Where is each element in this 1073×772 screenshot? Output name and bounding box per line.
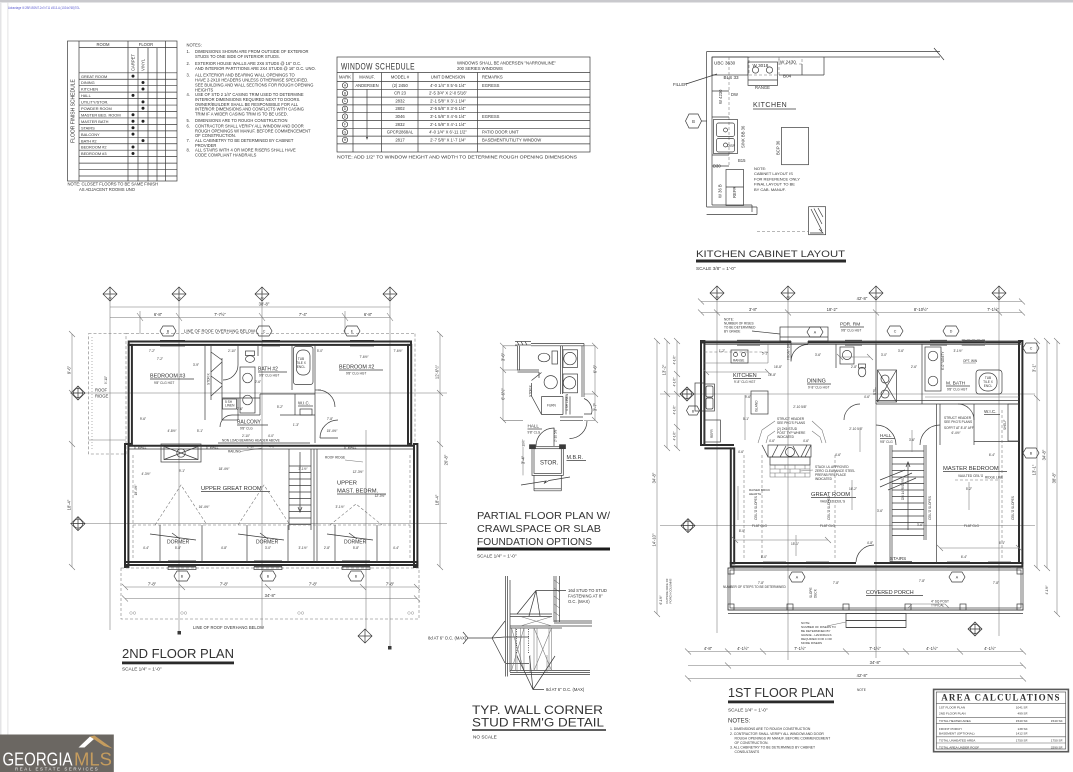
- grid diamonds top: [103, 287, 397, 301]
- svg-text:COVERED PORCH: COVERED PORCH: [866, 590, 914, 596]
- bath2 vanity sinks: [240, 367, 255, 413]
- svg-text:138 SF.: 138 SF.: [1018, 727, 1029, 731]
- svg-text:B15: B15: [738, 158, 746, 163]
- GeorgiaMLS logo: [0, 735, 114, 772]
- svg-text:9'8" CLG HGT: 9'8" CLG HGT: [841, 329, 861, 333]
- left grid diamond 2/A3: [680, 387, 694, 401]
- svg-text:Advantage III 2BR-BSMT-2x7x711: Advantage III 2BR-BSMT-2x7x711 #313-A (1…: [8, 6, 80, 10]
- upper cabinets: [712, 57, 748, 75]
- svg-text:A3: A3: [997, 295, 1001, 299]
- svg-text:BASEMENT/UTILITY WINDOW: BASEMENT/UTILITY WINDOW: [482, 137, 541, 142]
- svg-text:BASEMENT (OPTIONAL): BASEMENT (OPTIONAL): [939, 732, 975, 736]
- svg-text:GPCR2868AL: GPCR2868AL: [387, 130, 414, 135]
- svg-text:MODEL #: MODEL #: [391, 75, 410, 80]
- top plate lines: [510, 613, 552, 615]
- dormer walls: [160, 525, 377, 562]
- svg-text:SCALE 1/4" = 1'-0": SCALE 1/4" = 1'-0": [122, 667, 162, 672]
- interior dim texts scattered: [141, 355, 368, 476]
- svg-text:7'-8": 7'-8": [148, 582, 157, 587]
- svg-text:4'-3½": 4'-3½": [141, 472, 150, 476]
- door arcs: [844, 404, 860, 420]
- svg-text:DINING: DINING: [807, 379, 826, 385]
- right dims: [437, 331, 443, 570]
- svg-text:7'-8": 7'-8": [993, 581, 999, 585]
- svg-text:4'-8": 4'-8": [221, 546, 227, 550]
- struct header right: [944, 416, 974, 430]
- svg-text:9'-6": 9'-6": [745, 395, 751, 399]
- svg-text:9'8" CLG HGT: 9'8" CLG HGT: [259, 374, 279, 378]
- svg-text:UPPER GREAT ROOM: UPPER GREAT ROOM: [201, 486, 262, 492]
- hall doors: [536, 428, 554, 446]
- great room / master partition: [313, 449, 315, 562]
- svg-text:CEIL'G SLOPES: CEIL'G SLOPES: [754, 496, 758, 520]
- svg-text:AND INTERIOR PARTITIONS ARE 2X: AND INTERIOR PARTITIONS ARE 2X4 STUDS @ …: [195, 66, 316, 71]
- svg-text:7'-1½": 7'-1½": [987, 307, 999, 312]
- svg-text:3'-6": 3'-6": [898, 349, 904, 353]
- svg-text:7'-6½": 7'-6½": [393, 349, 402, 353]
- svg-text:ENCL: ENCL: [984, 384, 993, 388]
- svg-text:STAIRS: STAIRS: [890, 556, 906, 561]
- svg-text:B04: B04: [783, 74, 792, 79]
- svg-text:2'-10": 2'-10": [247, 445, 255, 449]
- svg-text:RANGE: RANGE: [755, 85, 770, 90]
- roof gold part: [90, 736, 113, 749]
- hexagon B left: [687, 406, 700, 415]
- svg-text:3'-6": 3'-6": [501, 352, 506, 361]
- stairs shaft: [289, 449, 311, 530]
- svg-text:A3: A3: [715, 295, 719, 299]
- porch door opening: [856, 562, 874, 565]
- ceiling slope dashed lines: [744, 410, 1002, 560]
- svg-text:STOR.: STOR.: [540, 461, 559, 467]
- svg-text:DIMENSIONS ARE TO ROUGH CONSTR: DIMENSIONS ARE TO ROUGH CONSTRUCTION: [195, 118, 287, 123]
- svg-text:RANGE: RANGE: [733, 359, 744, 363]
- svg-text:2'-5 5/8" X 3'-5 1/4": 2'-5 5/8" X 3'-5 1/4": [430, 106, 466, 111]
- svg-text:W.I.C.: W.I.C.: [984, 409, 997, 414]
- svg-text:6'-4": 6'-4": [989, 453, 995, 457]
- svg-text:1412 SF.: 1412 SF.: [1016, 732, 1028, 736]
- mark circles A-H: [342, 83, 347, 143]
- porch posts: [728, 568, 1023, 610]
- svg-text:15'-1": 15'-1": [791, 542, 799, 546]
- svg-text:5'-0": 5'-0": [317, 349, 323, 353]
- svg-text:7'-8": 7'-8": [327, 417, 333, 421]
- svg-text:2802: 2802: [395, 106, 405, 111]
- svg-text:FRONT PORCH: FRONT PORCH: [939, 727, 962, 731]
- svg-text:D: D: [950, 330, 953, 334]
- svg-text:HALL: HALL: [880, 433, 892, 438]
- svg-text:3'-1½": 3'-1½": [298, 546, 307, 550]
- svg-text:9'8" CLG HGT: 9'8" CLG HGT: [154, 381, 174, 385]
- general notes list: [187, 43, 316, 158]
- svg-text:4'-1½": 4'-1½": [737, 646, 749, 651]
- m bath vanity: [925, 347, 941, 391]
- svg-text:6'-8": 6'-8": [364, 312, 373, 317]
- window schedule table: [337, 57, 590, 161]
- svg-text:MANUF.: MANUF.: [359, 75, 375, 80]
- wall to right: [554, 620, 592, 622]
- svg-text:ROOF: ROOF: [95, 388, 108, 393]
- svg-text:INDICATED: INDICATED: [815, 477, 833, 481]
- svg-text:VAULTED CEIL'G: VAULTED CEIL'G: [820, 500, 846, 504]
- svg-text:C: C: [263, 329, 266, 333]
- svg-text:C: C: [1030, 347, 1033, 351]
- right hexagons: [1023, 343, 1039, 353]
- svg-text:W 3018: W 3018: [753, 63, 769, 68]
- svg-text:F: F: [344, 123, 346, 127]
- bottom diamond 4/A3: [968, 622, 982, 636]
- svg-text:W.I.C.: W.I.C.: [298, 401, 310, 406]
- svg-text:7'-8": 7'-8": [386, 582, 395, 587]
- area calculations table: [934, 689, 1069, 751]
- svg-text:3'-1 5/8" X 4'-5 1/4": 3'-1 5/8" X 4'-5 1/4": [430, 114, 466, 119]
- svg-text:5'-1": 5'-1": [743, 417, 749, 421]
- left bump out sink: [695, 383, 714, 411]
- svg-text:2'-6": 2'-6": [255, 380, 261, 384]
- svg-text:VAULTED CEIL'G: VAULTED CEIL'G: [958, 474, 984, 478]
- svg-text:1.: 1.: [187, 49, 190, 54]
- svg-text:4'-0": 4'-0": [269, 445, 275, 449]
- svg-text:42'-8": 42'-8": [857, 673, 868, 678]
- svg-text:3'-7": 3'-7": [593, 402, 598, 411]
- svg-text:SCALE 1/4" = 1'-0": SCALE 1/4" = 1'-0": [477, 554, 517, 559]
- svg-text:ROUGH OPENINGS W/ MANUF. BEFOR: ROUGH OPENINGS W/ MANUF. BEFORE COMMENCE…: [735, 737, 831, 741]
- svg-text:DECK: DECK: [814, 588, 818, 598]
- svg-text:2'-10": 2'-10": [242, 434, 250, 438]
- hexagons below bottom wall: [174, 571, 364, 581]
- svg-text:NOTE: NOTE: [857, 688, 866, 692]
- left roof wing dashed: [89, 334, 127, 454]
- svg-text:6" WALL: 6" WALL: [344, 445, 357, 449]
- svg-text:7'-7½": 7'-7½": [214, 312, 226, 317]
- balcony opening box: [161, 444, 201, 462]
- svg-text:2.: 2.: [187, 61, 190, 66]
- svg-text:7'-2": 7'-2": [157, 357, 163, 361]
- svg-text:34'-8": 34'-8": [652, 472, 657, 483]
- svg-text:5'-1": 5'-1": [197, 429, 203, 433]
- svg-text:7'-8": 7'-8": [220, 582, 229, 587]
- svg-text:14'-10": 14'-10": [652, 533, 657, 547]
- svg-text:FASTENING AT 8": FASTENING AT 8": [568, 594, 603, 599]
- svg-text:5'-2": 5'-2": [277, 405, 283, 409]
- svg-text:4'-0 1/4" X 6'-11 1/2": 4'-0 1/4" X 6'-11 1/2": [429, 130, 467, 135]
- svg-text:2'-8": 2'-8": [851, 365, 857, 369]
- svg-text:18'-2": 18'-2": [827, 307, 838, 312]
- steps note: [801, 621, 837, 645]
- left dim column: [654, 338, 680, 617]
- svg-text:UTILITY/STOR.: UTILITY/STOR.: [81, 100, 108, 105]
- svg-text:38'-8": 38'-8": [1052, 472, 1057, 483]
- svg-text:3'-1½": 3'-1½": [953, 349, 962, 353]
- svg-text:OPT. WIN: OPT. WIN: [963, 359, 978, 363]
- svg-text:CARPET: CARPET: [131, 54, 136, 71]
- utility closet X doors: [878, 370, 897, 402]
- svg-text:PATIO DOOR UNIT: PATIO DOOR UNIT: [482, 130, 519, 135]
- svg-text:4'-6": 4'-6": [835, 453, 841, 457]
- svg-text:38'-8": 38'-8": [259, 302, 270, 307]
- hexagon A at stoop: [807, 327, 823, 337]
- svg-text:UPPER: UPPER: [337, 481, 357, 487]
- svg-text:18'-4": 18'-4": [67, 499, 72, 510]
- svg-text:KITCHEN CABINET LAYOUT: KITCHEN CABINET LAYOUT: [696, 249, 845, 260]
- svg-text:INDICATED: INDICATED: [777, 435, 795, 439]
- kitchen cabinet layout: [673, 48, 944, 271]
- svg-text:TOTAL UNHEATED AREA: TOTAL UNHEATED AREA: [939, 738, 976, 742]
- roof overhang dashed top: [126, 333, 415, 335]
- grid diamonds top: [710, 286, 1006, 300]
- kitchen walls: [707, 48, 944, 207]
- svg-text:BATH #2: BATH #2: [81, 138, 97, 143]
- svg-text:26'-8": 26'-8": [444, 454, 449, 465]
- porch hexagons: [789, 572, 805, 582]
- partial plan dims: [500, 343, 598, 476]
- front stoop: [780, 327, 828, 341]
- svg-text:2'-1 5/8" X 4'-1 1/4": 2'-1 5/8" X 4'-1 1/4": [430, 122, 466, 127]
- opt win dashed: [962, 340, 985, 346]
- svg-text:3'-1": 3'-1": [1032, 363, 1037, 372]
- svg-text:HEARTH: HEARTH: [749, 492, 761, 496]
- typ wall corner stud framing detail: [428, 576, 607, 740]
- svg-text:WINDOW SCHEDULE: WINDOW SCHEDULE: [341, 62, 415, 73]
- svg-text:8'-0": 8'-0": [739, 529, 745, 533]
- svg-text:SLOPE: SLOPE: [809, 587, 813, 598]
- grid diamond left 5/A3: [71, 386, 85, 400]
- fireplace: [762, 445, 811, 465]
- covered porch: [728, 568, 1023, 614]
- svg-text:HALL: HALL: [81, 93, 92, 98]
- door arc bath right: [584, 399, 592, 415]
- svg-text:MAST. BEDRM.: MAST. BEDRM.: [337, 489, 379, 495]
- svg-text:9'8" CLG HGT: 9'8" CLG HGT: [346, 372, 366, 376]
- svg-text:BEDROOM #3: BEDROOM #3: [150, 374, 185, 380]
- svg-text:5'-8": 5'-8": [175, 546, 181, 550]
- svg-text:NOTES:: NOTES:: [728, 719, 751, 725]
- svg-text:9'8" CLG HGT: 9'8" CLG HGT: [947, 388, 967, 392]
- left grid diamond 7/A3: [681, 519, 695, 533]
- svg-text:MASTER BED. ROOM: MASTER BED. ROOM: [81, 113, 121, 118]
- svg-text:TOTAL HEATED AREA: TOTAL HEATED AREA: [939, 719, 972, 723]
- svg-text:10½": 10½": [522, 439, 526, 446]
- svg-text:NO SCALE: NO SCALE: [473, 735, 497, 740]
- svg-text:4'-1½": 4'-1½": [1045, 585, 1049, 594]
- svg-text:UNIT DIMENSION: UNIT DIMENSION: [431, 75, 466, 80]
- svg-text:2ND FLOOR PLAN: 2ND FLOOR PLAN: [122, 646, 234, 661]
- svg-text:16'-2": 16'-2": [849, 487, 857, 491]
- svg-text:3'-6": 3'-6": [877, 509, 883, 513]
- svg-text:FLOOR FINISH SCHEDULE: FLOOR FINISH SCHEDULE: [71, 79, 77, 143]
- svg-text:7'-6½": 7'-6½": [359, 355, 368, 359]
- partial plan walls: [518, 344, 585, 421]
- svg-text:18'-4½": 18'-4½": [219, 467, 230, 471]
- bottom wall corner: [707, 205, 757, 215]
- svg-text:7'-4": 7'-4": [299, 312, 308, 317]
- svg-text:SEE PKG'S PLANS: SEE PKG'S PLANS: [944, 420, 972, 424]
- svg-text:12'-3½": 12'-3½": [353, 470, 364, 474]
- svg-text:UTIL.: UTIL.: [873, 387, 877, 395]
- svg-text:3290 SF.: 3290 SF.: [1051, 745, 1063, 749]
- svg-text:A3: A3: [260, 296, 264, 300]
- upper section exterior walls: [129, 342, 412, 444]
- svg-text:CEIL'G SLOPES: CEIL'G SLOPES: [1011, 496, 1015, 520]
- top dim rows: [698, 299, 1025, 316]
- kitchen counters dashed: [704, 351, 768, 353]
- svg-text:6'-1½": 6'-1½": [659, 595, 663, 604]
- svg-text:9'8" CLG: 9'8" CLG: [240, 427, 253, 431]
- svg-text:REMARKS: REMARKS: [482, 75, 503, 80]
- svg-text:GREAT ROOM: GREAT ROOM: [81, 74, 107, 79]
- svg-text:2'-5 3/4" X 2'-0 5/16": 2'-5 3/4" X 2'-0 5/16": [429, 91, 468, 96]
- island BCP 36: [782, 127, 809, 164]
- svg-text:3'-1½": 3'-1½": [298, 467, 307, 471]
- svg-text:STOR K: STOR K: [529, 384, 533, 397]
- windows top wall: [737, 340, 985, 345]
- svg-text:B: B: [692, 119, 695, 124]
- svg-text:NOTE: CLOSET FLOORS TO BE SAME: NOTE: CLOSET FLOORS TO BE SAME FINISH: [68, 182, 159, 187]
- svg-text:6'-4½": 6'-4½": [951, 431, 960, 435]
- toilet: [538, 353, 550, 362]
- refr: [704, 420, 720, 442]
- svg-text:PORCH COLUMNS: PORCH COLUMNS: [669, 578, 673, 603]
- svg-text:4'-1½": 4'-1½": [673, 405, 677, 414]
- svg-text:15'-4½": 15'-4½": [327, 429, 338, 433]
- svg-text:6'-8": 6'-8": [154, 312, 163, 317]
- svg-text:BALCONY: BALCONY: [81, 132, 100, 137]
- bottom dim rows: [122, 584, 420, 602]
- svg-text:ANDERSEN: ANDERSEN: [355, 83, 378, 88]
- bath2 toilet: [246, 356, 255, 363]
- svg-text:REFR: REFR: [710, 429, 714, 438]
- windows top wall: [160, 340, 374, 346]
- svg-text:7'-1½": 7'-1½": [794, 646, 806, 651]
- svg-text:LINEN: LINEN: [225, 404, 235, 408]
- svg-text:5'-8": 5'-8": [353, 546, 359, 550]
- svg-text:STUDS TO ONE SIDE OF INTERIOR: STUDS TO ONE SIDE OF INTERIOR STUDS.: [195, 54, 280, 59]
- svg-text:4'-1½": 4'-1½": [926, 646, 938, 651]
- svg-text:KITCHEN: KITCHEN: [81, 87, 98, 92]
- svg-text:200 SERIES WINDOWS: 200 SERIES WINDOWS: [457, 66, 503, 71]
- svg-text:4'-8½": 4'-8½": [167, 429, 176, 433]
- svg-text:DORMER: DORMER: [167, 540, 190, 546]
- svg-text:18'-4½": 18'-4½": [134, 485, 138, 496]
- svg-text:6'-0" VANITY: 6'-0" VANITY: [941, 351, 945, 370]
- svg-text:CONSULTANTS: CONSULTANTS: [735, 750, 760, 754]
- svg-text:HALL: HALL: [528, 424, 540, 429]
- svg-text:BEDROOM #2: BEDROOM #2: [81, 145, 107, 150]
- dim row above bottom wall: [143, 546, 399, 550]
- range: [748, 62, 778, 85]
- svg-text:STAIRS: STAIRS: [81, 125, 95, 130]
- svg-text:4'-1½": 4'-1½": [673, 355, 677, 364]
- svg-text:1'-3": 1'-3": [293, 423, 299, 427]
- svg-text:OF CONSTRUCTION.: OF CONSTRUCTION.: [735, 741, 769, 745]
- svg-text:1ST FLOOR PLAN: 1ST FLOOR PLAN: [728, 685, 834, 700]
- svg-text:A3: A3: [108, 296, 112, 300]
- svg-text:7'-8": 7'-8": [758, 581, 764, 585]
- svg-text:FLAT CLG: FLAT CLG: [964, 524, 979, 528]
- studs with X bracing: [512, 617, 563, 673]
- svg-text:CR 23: CR 23: [394, 91, 407, 96]
- svg-text:6'-6½": 6'-6½": [501, 388, 506, 400]
- svg-text:4'-1½": 4'-1½": [984, 646, 996, 651]
- svg-text:6.: 6.: [187, 123, 190, 128]
- svg-text:3'-9": 3'-9": [193, 363, 199, 367]
- svg-text:2. CONTRACTOR SHALL VERIFY AL: 2. CONTRACTOR SHALL VERIFY ALL WINDOW AN…: [730, 732, 824, 736]
- tub: [976, 370, 1002, 394]
- svg-text:W 4230: W 4230: [718, 89, 723, 104]
- svg-text:UBC 3630: UBC 3630: [714, 61, 736, 66]
- svg-text:6'-1": 6'-1": [999, 541, 1005, 545]
- svg-text:4'-1½": 4'-1½": [673, 431, 677, 440]
- svg-text:NOTE: ADD 1/2" TO WINDOW HEIGH: NOTE: ADD 1/2" TO WINDOW HEIGHT AND WIDT…: [337, 155, 578, 161]
- sheet top edge: [0, 0, 1073, 3]
- svg-text:PARTIAL FLOOR PLAN W/: PARTIAL FLOOR PLAN W/: [477, 510, 610, 522]
- svg-text:4'-1½": 4'-1½": [673, 377, 677, 386]
- svg-text:DORMER: DORMER: [344, 540, 367, 546]
- svg-text:9'-8" CLG HGT: 9'-8" CLG HGT: [734, 380, 755, 384]
- svg-text:3'-6": 3'-6": [917, 523, 923, 527]
- svg-text:3'-0": 3'-0": [265, 546, 271, 550]
- svg-text:CRAWLSPACE OR SLAB: CRAWLSPACE OR SLAB: [477, 523, 601, 535]
- svg-text:SEE PKG'S PLANS: SEE PKG'S PLANS: [777, 421, 805, 425]
- svg-text:8'-0": 8'-0": [761, 555, 767, 559]
- svg-text:FLOOR: FLOOR: [139, 42, 153, 47]
- svg-text:42'-8": 42'-8": [857, 296, 868, 301]
- stair symbol: [809, 207, 826, 235]
- svg-text:TRIM IF A WIDER CASING TRIM IS: TRIM IF A WIDER CASING TRIM IS TO BE USE…: [195, 112, 288, 117]
- svg-text:FILLER: FILLER: [673, 82, 687, 87]
- stairs: [890, 445, 926, 563]
- svg-text:POWDER ROOM: POWDER ROOM: [81, 106, 112, 111]
- svg-text:BY GRADE: BY GRADE: [724, 330, 740, 334]
- vertical stud hatched: [553, 576, 555, 622]
- svg-text:RIDGE: RIDGE: [95, 394, 108, 399]
- interior dim chains: [703, 354, 1022, 556]
- fireplace note: [815, 465, 855, 481]
- svg-text:AREA CALCULATIONS: AREA CALCULATIONS: [941, 693, 1061, 703]
- svg-text:9'8" CLG: 9'8" CLG: [528, 431, 541, 435]
- stor room: [530, 445, 566, 476]
- svg-text:ROOF RIDGE: ROOF RIDGE: [325, 456, 345, 460]
- svg-text:FLAT CLG: FLAT CLG: [820, 524, 835, 528]
- hexagon marker B: [686, 114, 702, 128]
- svg-text:MASTER BATH: MASTER BATH: [81, 119, 109, 124]
- hexagons C D top: [887, 326, 903, 336]
- svg-text:16'-8": 16'-8": [774, 365, 782, 369]
- bath2 tub: [294, 347, 314, 385]
- grid diamond bottom 4/A3: [358, 629, 372, 643]
- svg-text:2'-10 5/8": 2'-10 5/8": [554, 429, 558, 442]
- sheet left edge: [0, 2, 2, 737]
- svg-text:6'-6": 6'-6": [593, 364, 598, 373]
- svg-text:34'-8": 34'-8": [870, 660, 881, 665]
- svg-text:6" WALL: 6" WALL: [206, 445, 219, 449]
- grid verticals: [717, 300, 999, 660]
- svg-text:2'-1 5/8" X 3'-1 1/4": 2'-1 5/8" X 3'-1 1/4": [430, 98, 466, 103]
- svg-text:13'-1": 13'-1": [1032, 464, 1037, 475]
- svg-text:BY CAB. MANUF.: BY CAB. MANUF.: [754, 187, 786, 192]
- bottom plates: [510, 670, 590, 672]
- svg-text:DORMER: DORMER: [256, 540, 279, 546]
- svg-text:3046: 3046: [395, 114, 405, 119]
- svg-text:EGRESS: EGRESS: [482, 114, 500, 119]
- grid line verticals: [110, 300, 390, 648]
- svg-text:DINING: DINING: [81, 80, 95, 85]
- svg-text:SHELF: SHELF: [1003, 420, 1007, 430]
- svg-text:AS ADJACENT ROOMS UNO: AS ADJACENT ROOMS UNO: [79, 187, 136, 192]
- svg-text:W 2430: W 2430: [780, 60, 796, 65]
- svg-text:2'-7 5/8" X 1'-7 1/4": 2'-7 5/8" X 1'-7 1/4": [430, 137, 466, 142]
- hearth brick hatch: [770, 465, 810, 477]
